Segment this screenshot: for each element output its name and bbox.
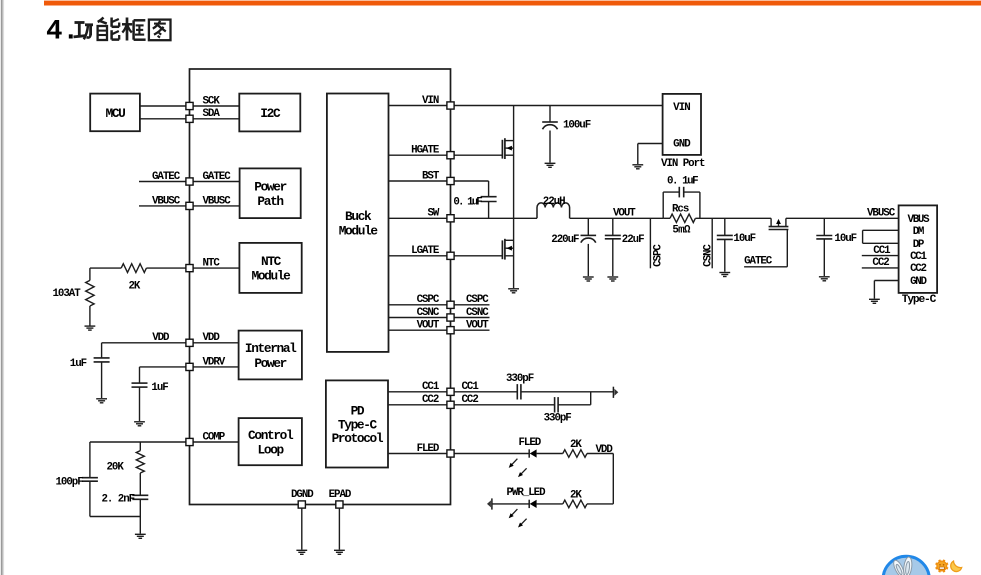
LED PWR_LED xyxy=(492,487,563,508)
svg-text:DGND: DGND xyxy=(291,489,314,501)
svg-text:VIN: VIN xyxy=(422,95,439,107)
block Control Loop xyxy=(239,418,302,465)
svg-text:GND: GND xyxy=(910,276,927,288)
pin EPAD xyxy=(329,489,352,508)
svg-text:0. 1uF: 0. 1uF xyxy=(453,196,482,208)
label VDRV xyxy=(203,356,226,368)
svg-text:VBUS: VBUS xyxy=(908,214,931,226)
svg-text:GATEC: GATEC xyxy=(744,255,773,267)
capacitor 100uF xyxy=(542,106,591,163)
transistor low-side NMOS xyxy=(502,239,513,260)
label CSPC outside xyxy=(466,294,489,306)
svg-text:FLED: FLED xyxy=(519,437,542,449)
svg-text:SW: SW xyxy=(427,208,439,220)
capacitor 2.2nF xyxy=(102,473,149,534)
capacitor 0.1uF (BST) xyxy=(453,181,496,218)
wire VDD xyxy=(102,342,239,344)
wire CC1 stub xyxy=(862,255,899,257)
wire SCK xyxy=(140,105,239,107)
wire CC1 (PD) xyxy=(388,391,613,393)
capacitor 330pF (CC1) xyxy=(506,373,534,400)
wire CC2 (PD) xyxy=(388,392,591,405)
label BST xyxy=(422,170,440,182)
svg-text:CC1: CC1 xyxy=(422,381,440,393)
page left edge shading xyxy=(1,0,4,575)
svg-text:DM: DM xyxy=(913,226,924,238)
label SW xyxy=(427,208,439,220)
pin SW xyxy=(447,215,454,222)
svg-text:Internal: Internal xyxy=(245,341,297,356)
pin FLED xyxy=(447,450,454,457)
capacitor 100pF xyxy=(56,442,98,517)
svg-text:CSPC: CSPC xyxy=(652,244,664,267)
svg-text:100uF: 100uF xyxy=(563,119,591,131)
label VDD net xyxy=(596,444,614,456)
label CC2 outside xyxy=(462,394,479,406)
svg-text:VDD: VDD xyxy=(152,332,170,344)
svg-text:CSNC: CSNC xyxy=(417,307,440,319)
pin LGATE xyxy=(447,252,454,259)
heading number 4. xyxy=(46,16,79,47)
Type-C connector xyxy=(899,205,938,293)
svg-text:330pF: 330pF xyxy=(506,373,534,385)
ground 10uF right xyxy=(819,277,830,281)
label NTC xyxy=(203,258,221,270)
svg-text:BST: BST xyxy=(422,170,440,182)
svg-text:100pF: 100pF xyxy=(56,477,84,489)
resistor 2K (PWR_LED) xyxy=(563,489,587,507)
svg-text:Module: Module xyxy=(339,224,379,239)
svg-text:CC1: CC1 xyxy=(910,251,927,263)
label CC1 (Type-C) xyxy=(873,245,891,257)
svg-text:VBUSC: VBUSC xyxy=(152,195,181,207)
wire EPAD xyxy=(338,508,340,549)
label LGATE xyxy=(411,245,440,257)
label VOUT inside xyxy=(417,320,440,332)
svg-text:VIN Port: VIN Port xyxy=(661,158,705,170)
svg-text:PWR_LED: PWR_LED xyxy=(507,487,547,499)
label GATEC (PMOS gate) xyxy=(744,255,773,267)
ground 220uF xyxy=(583,277,594,281)
pin VBUSC xyxy=(186,202,193,209)
capacitor 1uF (VDD) xyxy=(70,343,110,398)
wire VIN Port GND xyxy=(638,144,663,165)
ground VDD cap xyxy=(96,399,107,403)
svg-text:DP: DP xyxy=(913,239,925,251)
ground VDRV cap xyxy=(134,422,145,426)
pin CSNC xyxy=(447,314,454,321)
svg-text:GND: GND xyxy=(673,138,691,150)
wire VIN xyxy=(389,105,663,107)
svg-text:5mΩ: 5mΩ xyxy=(672,224,691,236)
label CC1 outside xyxy=(462,381,480,393)
wire VOUT pin xyxy=(389,329,490,331)
wire COMP bottom xyxy=(90,516,140,518)
svg-text:330pF: 330pF xyxy=(544,413,572,425)
wire VOUT node xyxy=(570,217,664,219)
svg-text:CSNC: CSNC xyxy=(703,244,715,267)
label Type-C xyxy=(902,294,937,306)
capacitor 22uF xyxy=(605,218,644,276)
svg-text:FLED: FLED xyxy=(417,443,440,455)
wire CSNC pin xyxy=(389,317,490,319)
wire CSPC pin xyxy=(389,304,490,306)
pin NTC xyxy=(186,265,193,272)
node CSPC stub xyxy=(650,218,664,268)
svg-text:Loop: Loop xyxy=(258,442,285,457)
svg-text:2K: 2K xyxy=(129,281,141,293)
node CSNC stub xyxy=(703,218,715,268)
resistor 2K (NTC) xyxy=(121,264,146,293)
block I2C xyxy=(239,94,300,132)
capacitor 1uF (VDRV) xyxy=(132,367,169,421)
wire VDRV xyxy=(140,366,239,368)
wire FLED to VDD xyxy=(587,454,613,504)
svg-text:VOUT: VOUT xyxy=(613,207,636,219)
svg-text:2K: 2K xyxy=(570,439,582,451)
svg-text:CSPC: CSPC xyxy=(417,294,440,306)
label VDD left xyxy=(152,332,170,344)
label GATEC left xyxy=(152,171,181,183)
ground 103AT xyxy=(85,326,96,330)
label HGATE xyxy=(411,145,440,157)
wire PWR_LED right xyxy=(587,503,613,505)
svg-text:CC1: CC1 xyxy=(462,381,480,393)
capacitor 10uF (left) xyxy=(717,218,756,271)
svg-text:Module: Module xyxy=(252,269,292,284)
svg-text:LGATE: LGATE xyxy=(411,245,440,257)
label VOUT xyxy=(613,207,636,219)
label VDD right xyxy=(203,332,221,344)
label COMP xyxy=(203,431,226,443)
svg-text:10uF: 10uF xyxy=(834,233,856,245)
svg-text:MCU: MCU xyxy=(106,106,126,121)
svg-text:SDA: SDA xyxy=(203,108,221,120)
wire Type-C GND xyxy=(874,281,898,299)
wire COMP xyxy=(90,441,239,443)
wire FLED xyxy=(388,453,529,455)
label VIN Port xyxy=(661,158,705,170)
svg-text:2. 2nF: 2. 2nF xyxy=(102,494,135,506)
transistor PMOS GATEC xyxy=(769,218,789,229)
wire BST xyxy=(389,180,489,182)
svg-text:103AT: 103AT xyxy=(53,288,82,300)
pin CSPC xyxy=(447,301,454,308)
svg-text:0. 1uF: 0. 1uF xyxy=(667,175,698,187)
svg-text:Type-C: Type-C xyxy=(902,294,937,306)
svg-text:SCK: SCK xyxy=(203,95,221,107)
svg-text:4.: 4. xyxy=(46,16,79,47)
pin COMP xyxy=(186,438,193,445)
LED FLED xyxy=(519,437,563,458)
ground VIN Port xyxy=(632,165,643,169)
LED FLED arrows xyxy=(509,459,527,477)
svg-text:NTC: NTC xyxy=(261,254,282,269)
label GATEC right xyxy=(203,171,232,183)
svg-text:CC2: CC2 xyxy=(872,257,889,269)
label CC2 (Type-C) xyxy=(872,257,889,269)
thermistor 103AT xyxy=(53,268,95,325)
svg-text:1uF: 1uF xyxy=(70,358,87,370)
ground COMP network xyxy=(135,534,146,538)
svg-text:VBUSC: VBUSC xyxy=(203,195,232,207)
pin CC2 xyxy=(447,401,454,408)
pin SDA xyxy=(186,115,193,122)
svg-text:EPAD: EPAD xyxy=(329,489,352,501)
wire NTC xyxy=(90,267,240,269)
svg-text:GATEC: GATEC xyxy=(152,171,181,183)
wire SDA xyxy=(140,118,239,120)
svg-text:Rcs: Rcs xyxy=(672,203,689,215)
ground Type-C xyxy=(869,299,880,303)
wire HGATE xyxy=(389,154,503,156)
wire DM DP stubs xyxy=(863,230,899,243)
wire VBUSC xyxy=(139,205,240,207)
svg-text:GATEC: GATEC xyxy=(203,171,232,183)
resistor 20K xyxy=(107,442,145,474)
svg-text:COMP: COMP xyxy=(203,431,226,443)
svg-text:NTC: NTC xyxy=(203,258,221,270)
resistor 2K (FLED) xyxy=(563,439,587,457)
label CC2 inside xyxy=(422,394,439,406)
wire CC2 stub xyxy=(862,267,899,269)
svg-text:HGATE: HGATE xyxy=(411,145,440,157)
svg-text:VDD: VDD xyxy=(596,444,614,456)
svg-text:22uH: 22uH xyxy=(543,196,565,208)
svg-text:VBUSC: VBUSC xyxy=(867,207,896,219)
ground 100uF xyxy=(545,163,556,167)
block PD Type-C Protocol xyxy=(326,380,388,467)
svg-text:VOUT: VOUT xyxy=(466,320,489,332)
widget assistant bubble xyxy=(883,556,929,575)
svg-text:I2C: I2C xyxy=(260,106,281,121)
block Power Path xyxy=(240,168,301,218)
wire GATEC gate xyxy=(744,230,787,267)
svg-text:VOUT: VOUT xyxy=(417,320,440,332)
label CSNC inside xyxy=(417,307,440,319)
LED PWR_LED arrows xyxy=(509,509,527,527)
pin VIN xyxy=(447,102,454,109)
label CC1 inside xyxy=(422,381,440,393)
header orange bar xyxy=(44,1,981,6)
svg-text:VIN: VIN xyxy=(673,102,690,114)
pin GATEC xyxy=(186,178,193,185)
svg-text:Path: Path xyxy=(257,194,283,209)
svg-text:22uF: 22uF xyxy=(622,234,644,246)
capacitor 220uF xyxy=(551,218,596,276)
label CSPC inside xyxy=(417,294,440,306)
svg-text:CC2: CC2 xyxy=(422,394,439,406)
label CSNC outside xyxy=(466,307,489,319)
ground 22uF xyxy=(607,277,618,281)
pin CC1 xyxy=(447,388,454,395)
svg-text:Power: Power xyxy=(254,356,286,371)
pin SCK xyxy=(186,102,193,109)
svg-text:VDRV: VDRV xyxy=(203,356,226,368)
wire FET rail xyxy=(513,106,515,289)
svg-text:VDD: VDD xyxy=(203,332,221,344)
sense resistor Rcs 5mOhm xyxy=(663,203,700,236)
IC main body outline xyxy=(190,69,451,505)
label FLED inside xyxy=(417,443,440,455)
pin DGND xyxy=(291,489,314,508)
terminal PWR_LED xyxy=(487,498,492,509)
pin VDD xyxy=(186,339,193,346)
svg-text:Control: Control xyxy=(248,428,294,443)
terminal CC arrow xyxy=(613,387,618,398)
svg-text:Protocol: Protocol xyxy=(332,431,384,446)
svg-text:CSPC: CSPC xyxy=(466,294,489,306)
svg-text:10uF: 10uF xyxy=(733,233,755,245)
label VOUT outside xyxy=(466,320,489,332)
ground low FET source xyxy=(508,289,519,293)
capacitor 0.1uF (Rcs bypass) xyxy=(663,175,700,218)
wire SW xyxy=(389,217,538,219)
svg-text:220uF: 220uF xyxy=(551,234,579,246)
label VBUSC left xyxy=(152,195,181,207)
VIN Port connector xyxy=(663,94,701,155)
label VBUSC right xyxy=(203,195,232,207)
svg-text:CC1: CC1 xyxy=(873,245,891,257)
block Internal Power xyxy=(239,331,302,380)
widget moon icon xyxy=(951,561,962,571)
label VBUSC net xyxy=(867,207,896,219)
svg-text:1uF: 1uF xyxy=(151,382,168,394)
pin BST xyxy=(447,177,454,184)
svg-text:Power: Power xyxy=(254,179,286,194)
block NTC Module xyxy=(239,243,301,293)
pin VOUT xyxy=(447,327,454,334)
capacitor 10uF (right) xyxy=(816,218,856,276)
ground DGND xyxy=(296,550,307,554)
pin VDRV xyxy=(186,363,193,370)
svg-text:20K: 20K xyxy=(107,462,125,474)
capacitor 330pF (CC2) xyxy=(544,397,572,425)
wire VOUT to VBUS xyxy=(700,217,899,219)
svg-text:CC2: CC2 xyxy=(910,263,926,275)
inductor 22uH xyxy=(537,196,570,218)
wire GATEC xyxy=(139,181,240,183)
label SDA xyxy=(203,108,221,120)
MCU box xyxy=(90,94,140,132)
block Buck Module xyxy=(327,94,389,352)
svg-text:CSNC: CSNC xyxy=(466,307,489,319)
widget sun icon xyxy=(936,560,948,572)
wire LGATE xyxy=(389,255,503,257)
heading text 功能框图 xyxy=(74,18,171,41)
svg-text:2K: 2K xyxy=(570,489,582,501)
svg-text:Buck: Buck xyxy=(345,209,372,224)
pin HGATE xyxy=(447,152,454,159)
label SCK xyxy=(203,95,221,107)
ground EPAD xyxy=(334,550,345,554)
wire DGND xyxy=(301,508,303,549)
label VIN xyxy=(422,95,439,107)
transistor high-side NMOS xyxy=(502,138,513,159)
svg-text:CC2: CC2 xyxy=(462,394,479,406)
ground 10uF left xyxy=(719,273,730,277)
